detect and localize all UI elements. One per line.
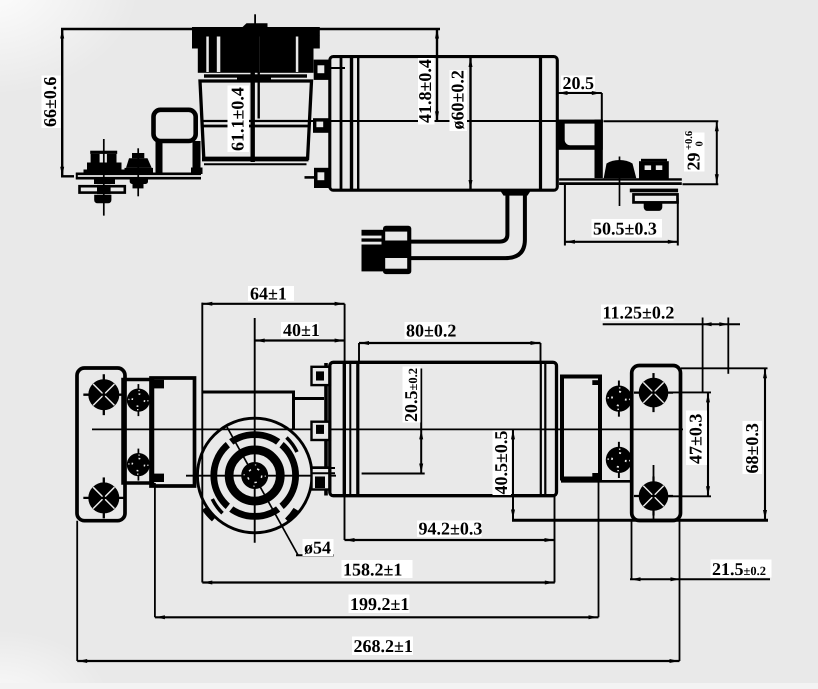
- label 40±1: [281, 320, 320, 340]
- svg-text:29: 29: [684, 153, 704, 171]
- dimension 66±0.6 line: [60, 28, 440, 178]
- svg-text:40.5±0.5: 40.5±0.5: [491, 431, 511, 495]
- ring slot cuts: [225, 438, 284, 512]
- label 40.5±0.5 (rotated): [491, 431, 511, 496]
- svg-text:68±0.3: 68±0.3: [742, 423, 762, 473]
- bolt on right foot A: [604, 157, 637, 207]
- dim 80±0.2: [359, 341, 541, 362]
- connector plug: [362, 226, 412, 274]
- svg-text:199.2±1: 199.2±1: [350, 594, 409, 614]
- plate 2: [123, 380, 153, 484]
- svg-text:ø54: ø54: [304, 538, 331, 558]
- svg-text:47±0.3: 47±0.3: [686, 414, 706, 464]
- bracket bolt BR: [634, 476, 673, 515]
- svg-text:ø60±0.2: ø60±0.2: [448, 70, 468, 129]
- pump body trapezoid (side view): [200, 81, 312, 164]
- dim 11.25±0.2: [603, 318, 740, 393]
- label 21.5±0.2: [711, 559, 772, 579]
- dim 94.2±0.3: [345, 496, 555, 583]
- svg-text:80±0.2: 80±0.2: [406, 321, 456, 341]
- label ø54: [303, 538, 334, 558]
- label 199.2±1: [349, 594, 410, 614]
- svg-text:41.8±0.4: 41.8±0.4: [415, 59, 435, 123]
- dim 40±1: [255, 339, 345, 343]
- svg-text:158.2±1: 158.2±1: [343, 560, 402, 580]
- dim 50.5: [565, 185, 678, 246]
- pump circle centerlines: [186, 318, 336, 543]
- bracket bolt TL: [83, 374, 124, 415]
- gearbox outline behind pump circle: [203, 391, 324, 429]
- label 66±0.6: [40, 76, 61, 129]
- bracket bolt BL: [83, 477, 124, 518]
- svg-text:50.5±0.3: 50.5±0.3: [593, 219, 657, 239]
- fan block: [192, 23, 320, 82]
- label 80±0.2: [405, 321, 457, 341]
- label 158.2±1: [342, 560, 413, 580]
- label 11.25±0.2: [601, 303, 674, 323]
- left bracket plate (plan): [77, 368, 125, 521]
- dim 158.2±1: [202, 581, 555, 585]
- svg-text:11.25±0.2: 11.25±0.2: [603, 303, 675, 323]
- bolt BR stem: [653, 465, 655, 520]
- dim 20.5±0.2 (plan): [362, 369, 425, 474]
- right plate block (plan): [561, 377, 633, 482]
- dim 199.2±1: [155, 481, 599, 620]
- label 29 +0.6/0: [684, 131, 706, 172]
- motor mounting ears (side view): [305, 60, 346, 188]
- dim 41.8 line: [435, 29, 439, 121]
- label 50.5±0.3: [592, 219, 663, 239]
- label 41.8±0.4: [415, 58, 435, 125]
- label 64±1: [248, 284, 294, 304]
- svg-text:0: 0: [695, 141, 706, 146]
- plate2 bolt bottom: [127, 449, 150, 481]
- svg-text:40±1: 40±1: [283, 320, 320, 340]
- label 61.1±0.4: [228, 86, 250, 153]
- terminal tab under motor: [500, 190, 531, 195]
- dim 47±0.3: [658, 392, 711, 496]
- svg-text:64±1: 64±1: [250, 284, 287, 304]
- svg-text:61.1±0.4: 61.1±0.4: [228, 87, 248, 151]
- bolt M1 (left foot large bolt): [80, 139, 126, 216]
- bracket bolt TR: [634, 373, 673, 412]
- dim 64±1: [202, 302, 344, 583]
- svg-text:66±0.6: 66±0.6: [40, 77, 60, 127]
- dim 40.5±0.5: [511, 429, 515, 519]
- motor centerline (plan): [92, 428, 683, 430]
- clamp block (left bracket upper): [154, 110, 203, 175]
- left bracket foot plate: [76, 173, 201, 180]
- label ø60±0.2: [448, 70, 468, 131]
- svg-text:268.2±1: 268.2±1: [354, 636, 413, 656]
- svg-text:20.5: 20.5: [563, 73, 595, 93]
- motor body (side view): [330, 57, 558, 191]
- dim 20.5 (side view): [558, 91, 602, 120]
- wire / cable: [409, 193, 525, 258]
- pump head circles: [197, 418, 312, 533]
- bolt M2 (left foot small bolt): [125, 148, 154, 196]
- label 20.5±0.2 (plan, rotated): [401, 367, 421, 423]
- ø54 leader line: [227, 427, 298, 555]
- shared extension line x=344.6: [344, 304, 346, 362]
- label 94.2±0.3: [417, 519, 482, 539]
- label 268.2±1: [352, 636, 413, 656]
- dim 21.5±0.2: [630, 521, 770, 582]
- right bracket plate (plan): [632, 366, 681, 521]
- label 20.5 (side): [561, 73, 595, 93]
- middle bolts (plan): [606, 381, 632, 417]
- ø54 text underline: [296, 554, 334, 556]
- motor centerline (side view): [201, 120, 557, 122]
- pump centerline + 61.1 dim line: [253, 14, 259, 162]
- svg-text:94.2±0.3: 94.2±0.3: [419, 519, 483, 539]
- motor front plate line + ears (plan): [312, 363, 336, 496]
- bottom reference line y=520: [512, 519, 768, 522]
- dim 268.2±1: [77, 521, 679, 664]
- plate2 bolt top: [127, 384, 150, 416]
- right bracket (side view): [558, 120, 682, 184]
- dim ø60 line: [469, 57, 473, 190]
- motor body (plan): [330, 362, 557, 495]
- dim 29 +0.6/0: [604, 121, 719, 184]
- pump rear housing: [151, 378, 195, 486]
- svg-text:+0.6: +0.6: [684, 131, 695, 150]
- bolt on right foot B: [630, 159, 678, 211]
- dim 68±0.3: [681, 368, 768, 520]
- outer detail arcs: [205, 438, 298, 521]
- label 47±0.3 (rotated): [686, 411, 708, 466]
- label 68±0.3 (rotated): [742, 421, 762, 474]
